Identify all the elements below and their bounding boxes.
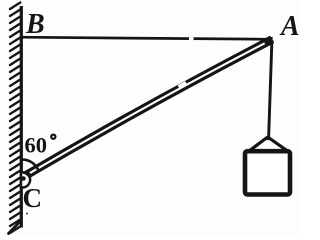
hanger triangle above weight <box>249 137 288 151</box>
rod root fill at C <box>23 173 30 177</box>
wall line <box>20 6 23 228</box>
hinge pivot dot at C <box>21 176 26 181</box>
hanger apex knot <box>266 136 270 140</box>
scan break in string B-A <box>189 36 194 41</box>
degree symbol <box>51 135 55 139</box>
hinge bracket at C <box>21 172 30 187</box>
rod C-A (double line with slight bow) <box>23 38 273 179</box>
speck below C <box>26 213 28 215</box>
scan break in rod upper line <box>179 83 187 87</box>
weight box <box>245 151 290 194</box>
svg-text:60: 60 <box>25 132 48 157</box>
wall hatching <box>10 3 20 234</box>
svg-text:B: B <box>25 9 45 40</box>
string A-weight (vertical) <box>269 41 272 139</box>
svg-text:C: C <box>23 183 43 213</box>
string B-A (horizontal) <box>21 37 272 39</box>
60 degree arc at C <box>20 160 39 171</box>
svg-text:A: A <box>279 11 300 42</box>
wall bottom hatch (larger) <box>9 222 21 234</box>
junction blob at A <box>264 37 273 45</box>
